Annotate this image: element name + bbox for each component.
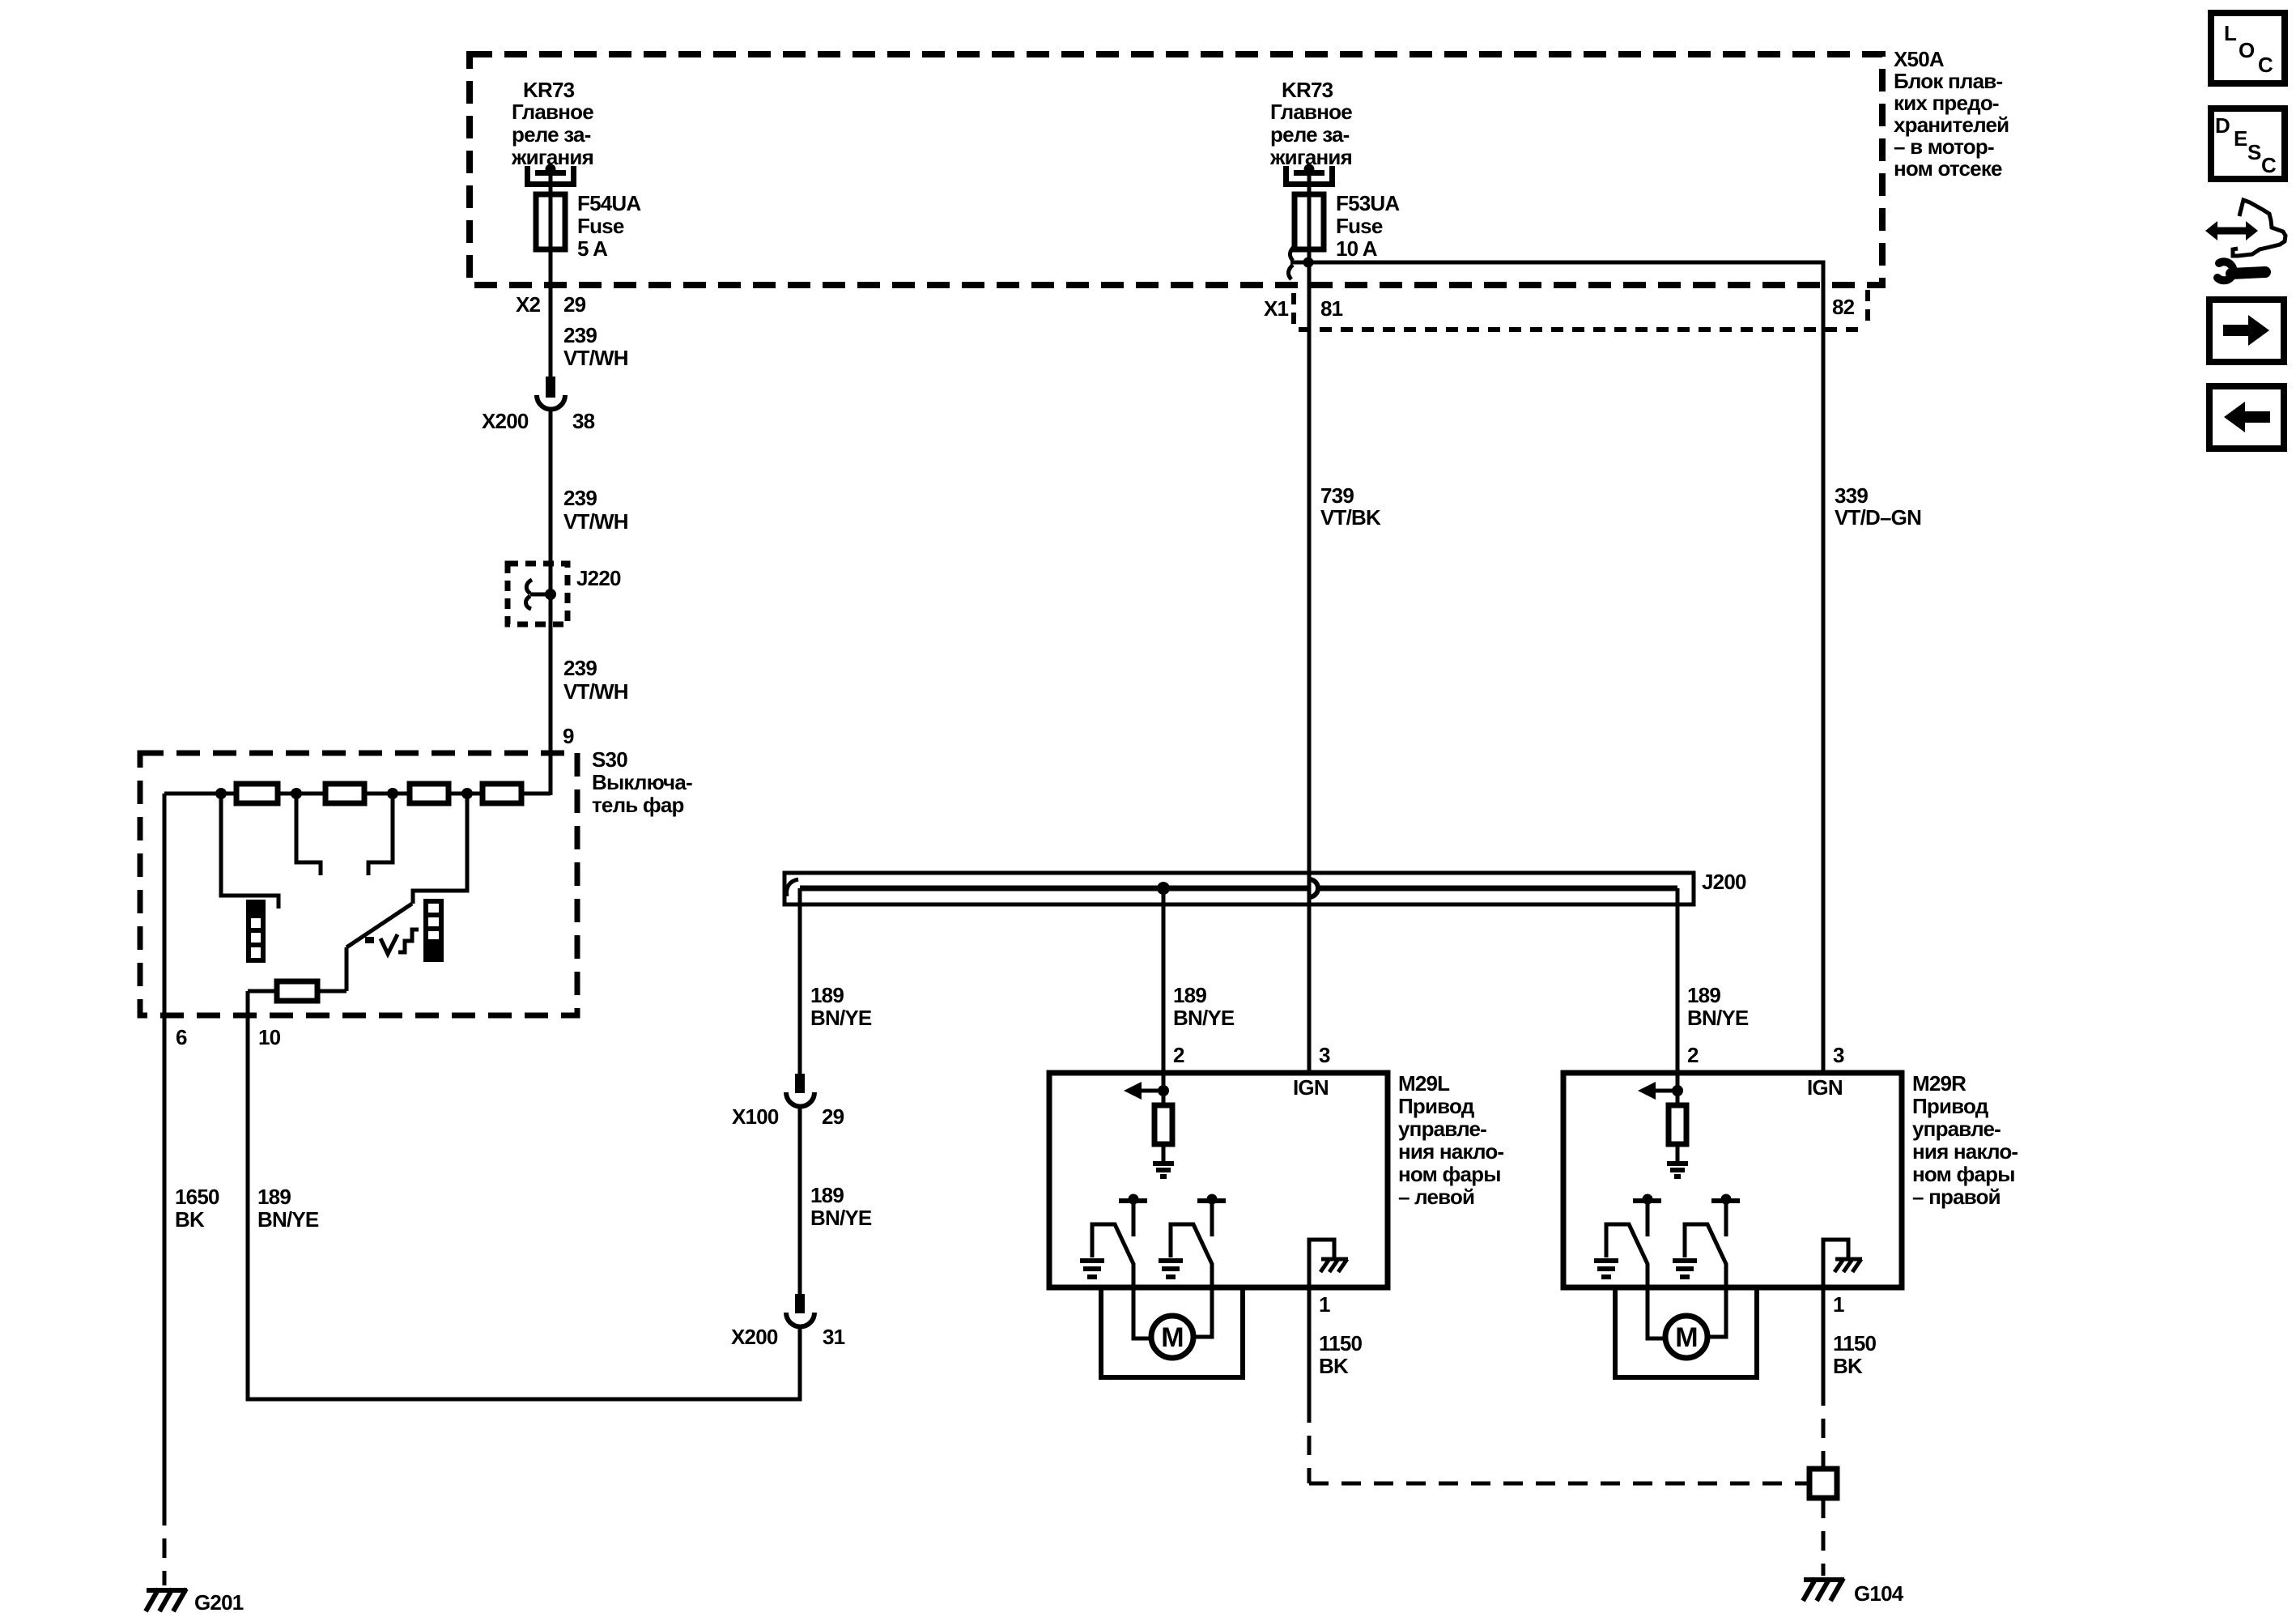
wire relay2 to fuse2 [1307,169,1312,262]
motor M29L [1151,1316,1193,1358]
svg-text:81: 81 [1320,296,1343,321]
wire contact stub from dot 4 [413,794,467,904]
splice crimp symbol below fuse2 [1288,246,1305,279]
resistor S30 R3 [410,784,449,803]
svg-text:Привод: Привод [1398,1094,1475,1118]
svg-text:ния накло-: ния накло- [1398,1139,1503,1164]
wire hop 739 over J200 [1309,879,1318,897]
svg-text:239: 239 [563,656,597,680]
ground arm2 M29R [1673,1261,1697,1277]
wire 739 VT/BK X1-81 down to M29L pin 3 [1307,262,1312,1073]
icon arrow right box [2209,300,2284,362]
wire resistor to signal ground M29R [1676,1144,1680,1164]
wire M29L pin 1 [1309,1287,1809,1483]
wire fuse2 junction to pin 82 [1309,262,1823,330]
switch S30 wiper arm [347,904,412,991]
svg-text:1: 1 [1833,1292,1844,1317]
label wire 1650 BK [175,1185,219,1232]
svg-text:J220: J220 [576,566,621,590]
wiper arrow M29L [1124,1082,1169,1100]
label X200 38 [482,409,595,433]
svg-text:E: E [2234,126,2247,151]
svg-text:38: 38 [572,409,595,433]
wire X100-29 up to J200 bus [798,888,802,1074]
svg-text:X100: X100 [732,1104,779,1129]
svg-text:3: 3 [1319,1043,1330,1067]
label KR73 relay 2 text [1269,78,1352,169]
splice J220 dashed box [508,564,568,624]
detent mechanism marks [365,930,419,954]
relay KR73 contact 1 [528,164,574,185]
label pin 9 [563,724,574,748]
svg-text:ния накло-: ния накло- [1912,1139,2018,1164]
wire J200 to M29R pin 2 (inside box) [1676,1073,1680,1105]
ground arm1 M29R [1594,1261,1618,1277]
label M29R text [1912,1071,2018,1209]
svg-text:G104: G104 [1854,1581,1904,1606]
svg-text:S: S [2247,140,2261,164]
icon arrow left box [2209,386,2284,449]
wire relay1 to fuse1 to X2 pin 29 [549,169,553,377]
svg-text:управле-: управле- [1398,1117,1486,1141]
svg-text:F53UA: F53UA [1336,191,1400,215]
label X50A block text [1894,47,2009,181]
contact T2 M29L [1197,1194,1226,1237]
svg-text:ном фары: ном фары [1912,1162,2015,1186]
svg-text:31: 31 [823,1325,845,1349]
resistor M29L feedback [1154,1105,1172,1144]
splice pack J200 [784,873,1694,1073]
svg-text:BK: BK [1319,1354,1349,1378]
wire 339 VT/D-GN down to M29R pin 3 [1822,330,1826,1073]
wire S30 chain segments [164,792,551,796]
node dot 3 [387,788,398,799]
wire M29R pin 1 to G104 [1822,1287,1826,1576]
fuse block X50A dashed box [470,54,1882,285]
label KR73 relay 1 text [511,78,593,169]
svg-text:VT/BK: VT/BK [1320,505,1381,530]
actuator M29R box [1563,1073,1902,1287]
label X200 31 [731,1325,845,1349]
label wire 189 BN/YE (lower left) [810,1183,872,1230]
svg-text:6: 6 [176,1025,187,1049]
signal ground M29R resistor [1667,1164,1688,1177]
svg-text:VT/WH: VT/WH [563,679,628,704]
wire contact stub from dot 1 [221,794,278,908]
chassis ground M29L internal [1309,1240,1348,1287]
svg-text:5 A: 5 A [577,236,608,261]
svg-text:– левой: – левой [1398,1185,1474,1209]
node dot J200 to M29L pin2 [1157,882,1170,895]
contact T1 M29L [1119,1194,1147,1237]
label 82 [1832,295,1855,319]
node dot 2 [291,788,302,799]
svg-text:L: L [2224,21,2237,45]
label X2 29 [516,292,586,317]
fuse F53UA [1295,194,1324,249]
svg-text:VT/WH: VT/WH [563,509,628,534]
svg-text:O: O [2239,38,2255,62]
node dot 4 [461,788,473,799]
svg-text:189: 189 [810,983,844,1007]
junction dot below fuse2 [1303,257,1314,268]
switch arm 2 M29R [1685,1224,1726,1337]
wire X200-31 to X100-29 [798,1108,802,1294]
icon DESC box [2211,109,2285,179]
wire J200 to M29L pin 2 [1162,888,1166,1105]
resistor S30 bottom [248,989,347,994]
contact T2 M29R [1711,1194,1740,1237]
ground G201 [146,1589,187,1611]
icon car silhouette with arrow and wrench [2205,200,2285,280]
svg-text:339: 339 [1835,483,1868,508]
svg-text:Fuse: Fuse [577,214,624,238]
svg-text:239: 239 [563,323,597,347]
svg-text:X200: X200 [482,409,529,433]
svg-text:10: 10 [258,1025,281,1049]
wire pin 10 (189 BN/YE) to X200-31 [248,991,800,1399]
ground arm2 M29L [1159,1261,1183,1277]
svg-text:10 A: 10 A [1336,236,1378,261]
svg-text:M29L: M29L [1398,1071,1450,1096]
svg-text:BN/YE: BN/YE [1687,1006,1749,1030]
svg-text:G201: G201 [194,1590,244,1615]
label S30 text [592,747,692,817]
svg-text:M: M [1161,1322,1184,1353]
svg-text:1150: 1150 [1319,1331,1363,1355]
resistor S30 R1 [236,784,278,803]
label wire 189 BN/YE (upper left) [810,983,872,1030]
resistor S30 R2 [325,784,364,803]
connector X100 pin 29 [786,1074,814,1107]
connector X200 pin 31 [786,1294,814,1327]
svg-text:VT/WH: VT/WH [563,346,628,370]
svg-text:BK: BK [175,1207,205,1232]
label F53UA [1336,191,1400,261]
motor loop M29L [1101,1287,1243,1377]
ground G104 [1803,1578,1844,1601]
label J220 [576,566,621,590]
svg-text:X200: X200 [731,1325,778,1349]
svg-text:F54UA: F54UA [577,191,641,215]
svg-text:X2: X2 [516,292,541,317]
switch arm 2 M29L [1171,1224,1212,1337]
label M29L text [1398,1071,1503,1209]
motor loop M29R [1615,1287,1757,1377]
svg-text:хранителей: хранителей [1894,113,2009,137]
signal ground M29L resistor [1153,1164,1174,1177]
svg-text:82: 82 [1832,295,1855,319]
detent bar left [246,900,266,960]
label wire 1150 BK (right) [1833,1331,1877,1378]
svg-text:IGN: IGN [1293,1075,1329,1100]
svg-text:IGN: IGN [1807,1075,1843,1100]
svg-text:189: 189 [1173,983,1206,1007]
resistor S30 R4 [483,784,521,803]
svg-text:239: 239 [563,486,597,510]
label wire 239 VT/WH (3) [563,656,628,704]
svg-text:BN/YE: BN/YE [1173,1006,1235,1030]
svg-text:M: M [1675,1322,1698,1353]
label wire 239 VT/WH (2) [563,486,628,534]
svg-text:X1: X1 [1264,296,1289,321]
svg-text:реле за-: реле за- [512,122,591,147]
svg-text:ном отсеке: ном отсеке [1894,156,2002,181]
svg-text:3: 3 [1833,1043,1844,1067]
connector X1 dotted band [1294,290,1868,330]
motor M29R [1665,1316,1707,1358]
svg-text:Главное: Главное [512,100,593,124]
node dot 1 [215,788,227,799]
svg-text:M29R: M29R [1912,1071,1966,1096]
svg-text:1: 1 [1319,1292,1330,1317]
svg-text:BN/YE: BN/YE [810,1006,872,1030]
wire resistor to signal ground M29L [1162,1144,1166,1164]
svg-text:1150: 1150 [1833,1331,1877,1355]
ground arm1 M29L [1080,1261,1104,1277]
svg-text:2: 2 [1687,1043,1699,1067]
switch S30 dashed box [140,753,577,1015]
splice square S-connector [1809,1469,1837,1498]
chassis ground M29R internal [1823,1240,1862,1287]
svg-text:C: C [2261,153,2277,177]
label wire 189 BN/YE (pin10) [257,1185,319,1232]
switch arm 1 M29L [1092,1224,1153,1338]
svg-text:ном фары: ном фары [1398,1162,1501,1186]
svg-text:VT/D–GN: VT/D–GN [1835,505,1921,530]
contact T1 M29R [1633,1194,1661,1237]
svg-text:189: 189 [257,1185,291,1209]
icon LOC box [2211,13,2285,83]
actuator M29L box [1049,1073,1388,1287]
svg-text:Привод: Привод [1912,1094,1989,1118]
svg-text:управле-: управле- [1912,1117,2000,1141]
label X1 81 [1264,296,1343,321]
svg-text:J200: J200 [1702,870,1746,894]
wire pin 6 (1650 BK) [163,794,167,1585]
wiper arrow M29R [1638,1082,1683,1100]
switch arm 1 M29R [1606,1224,1667,1338]
svg-text:189: 189 [810,1183,844,1207]
svg-text:Выключа-: Выключа- [592,770,692,794]
resistor M29R feedback [1669,1105,1686,1144]
svg-text:S30: S30 [592,747,627,772]
label wire 189 BN/YE (right) [1687,983,1749,1030]
svg-text:29: 29 [822,1104,844,1129]
svg-text:– в мотор-: – в мотор- [1894,134,1994,159]
label X100 29 [732,1104,844,1129]
connector X200 pin 38 [537,377,565,410]
svg-text:BN/YE: BN/YE [257,1207,319,1232]
label wire 739 VT/BK [1320,483,1381,530]
detent bar right [423,901,444,962]
svg-text:29: 29 [563,292,586,317]
wire contact stub from dot 3 [368,794,393,875]
label wire 239 VT/WH (1) [563,323,628,370]
svg-text:189: 189 [1687,983,1720,1007]
label F54UA [577,191,641,261]
svg-text:D: D [2215,113,2230,138]
svg-text:C: C [2258,53,2273,77]
label wire 189 BN/YE (center) [1173,983,1235,1030]
relay KR73 contact 2 [1286,164,1333,185]
svg-text:– правой: – правой [1912,1185,2000,1209]
wire X200-38 to S30 pin 9 [523,409,551,795]
svg-text:X50A: X50A [1894,47,1945,71]
svg-text:KR73: KR73 [1282,78,1333,102]
splice J220 symbol [525,580,556,609]
svg-text:тель фар: тель фар [592,793,684,817]
svg-text:BN/YE: BN/YE [810,1206,872,1230]
svg-text:Fuse: Fuse [1336,214,1383,238]
wire contact stub from dot 2 [296,794,321,875]
label wire 339 VT/D-GN [1835,483,1921,530]
svg-text:реле за-: реле за- [1270,122,1350,147]
svg-text:ких предо-: ких предо- [1894,91,1999,115]
svg-text:Главное: Главное [1270,100,1352,124]
fuse F54UA [536,194,565,249]
svg-text:739: 739 [1320,483,1354,508]
svg-text:KR73: KR73 [523,78,575,102]
svg-text:1650: 1650 [175,1185,219,1209]
label wire 1150 BK (left) [1319,1331,1363,1378]
svg-text:Блок плав-: Блок плав- [1894,69,2002,93]
svg-text:2: 2 [1173,1043,1184,1067]
svg-text:9: 9 [563,724,574,748]
svg-text:BK: BK [1833,1354,1863,1378]
